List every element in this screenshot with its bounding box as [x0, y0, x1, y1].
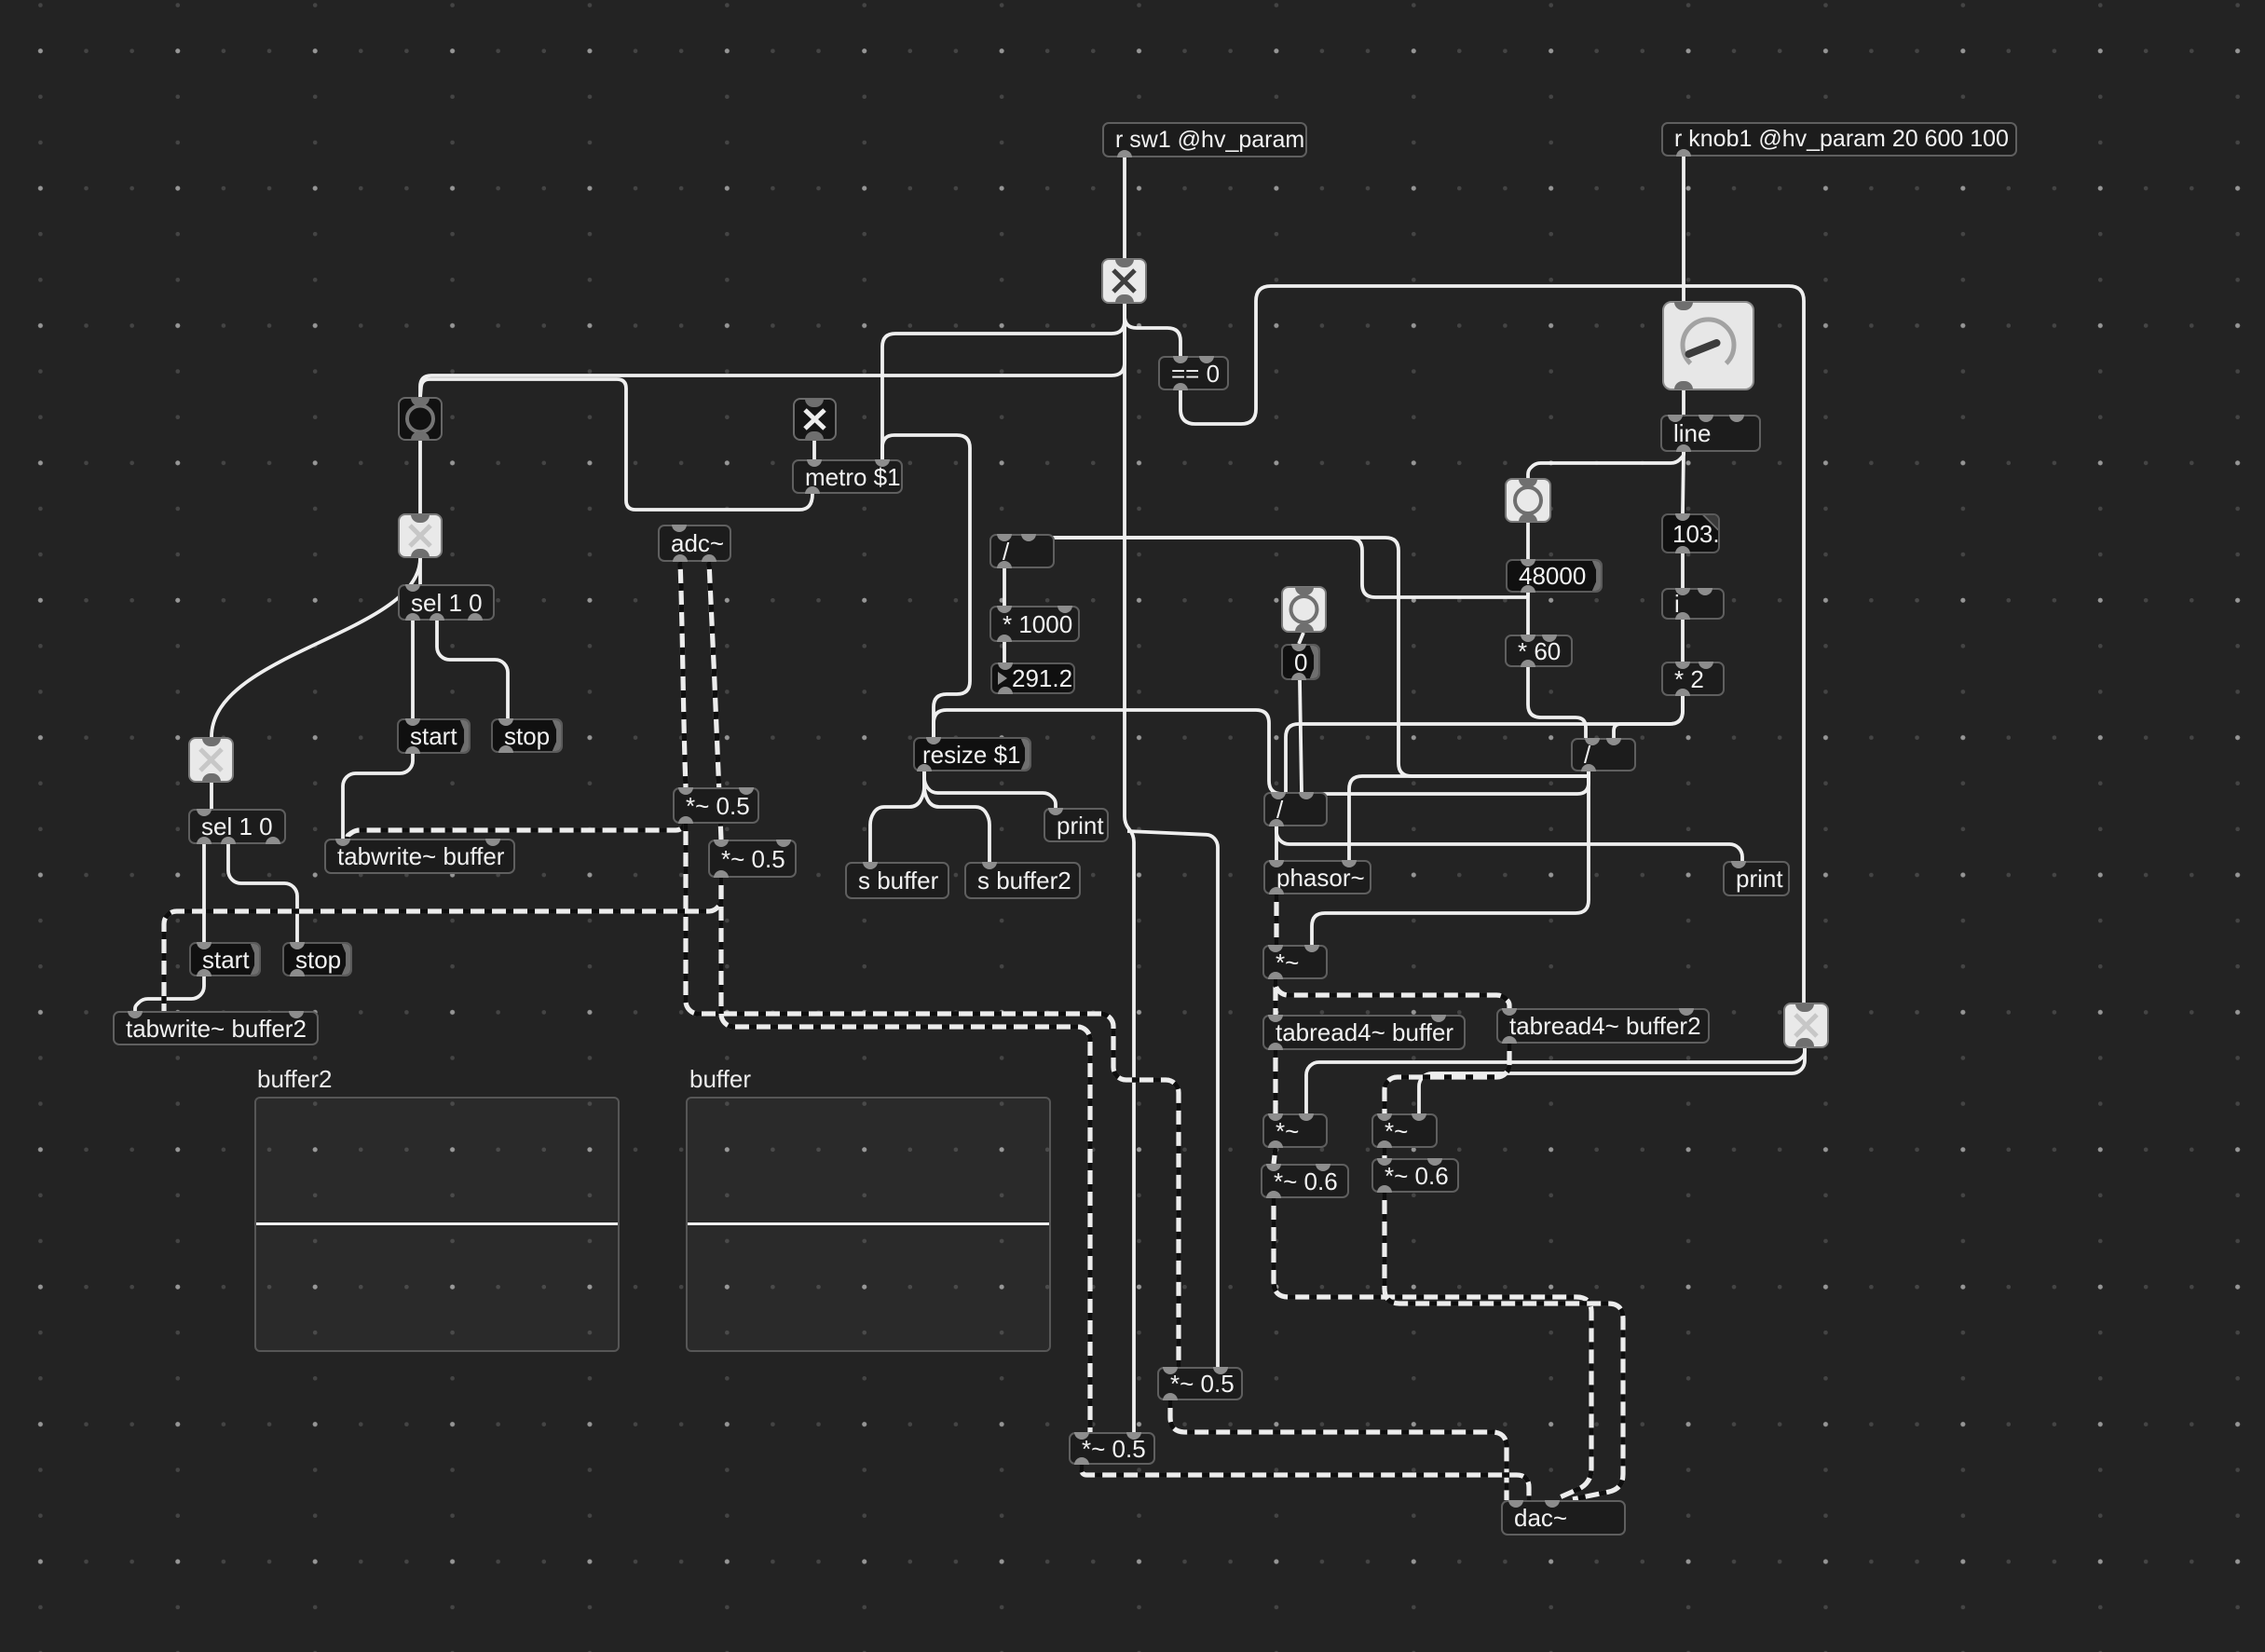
message [0] [1281, 644, 1320, 680]
wire / D3 -> phasor [1275, 826, 1278, 860]
message [stop] M4 [282, 942, 352, 976]
message [resize $1] [913, 737, 1031, 771]
wire line -> bng B2 [1528, 452, 1684, 478]
wire == 0 -> toggle T5 [1180, 286, 1804, 1003]
wire toggle T3 -> metro [812, 441, 816, 459]
message [start] M1 [397, 718, 471, 754]
wire knob -> line [1682, 390, 1685, 415]
array graph buffer [689, 1065, 751, 1094]
signal *~0.5a -> *~0.5 up [686, 824, 1179, 1367]
wire toggle sw -> metro right inlet [882, 304, 1125, 459]
wire sel S2 -> stop M4 [228, 844, 297, 942]
wire start M1 -> tabwrite buffer [343, 753, 413, 839]
object [/] D3 [1263, 792, 1328, 826]
object [*~ 0.5] a [673, 787, 759, 824]
wire bng B3 -> msg 0 [1299, 633, 1303, 644]
object [s buffer2] [964, 862, 1081, 899]
wire sel S2 -> start M3 [202, 844, 206, 942]
wire / D2 -> resize [934, 710, 1589, 794]
object [*~ 0.5] low [1069, 1432, 1155, 1465]
wire toggle sw -> *~0.5 low right inlet [1125, 304, 1134, 1432]
wire / D2 -> *~ X1 right inlet [1312, 771, 1589, 945]
object [phasor~] [1263, 860, 1371, 894]
signal adc~ L -> *~0.5 a [680, 562, 686, 787]
object [tabwrite~ buffer] [324, 839, 515, 874]
signal *~X1 -> tabread4 buffer [1273, 979, 1277, 1015]
wire / D2 -> / D1 right inlet [1030, 534, 1589, 776]
object [== 0] [1158, 356, 1229, 390]
wire / D3 -> print P2 [1276, 826, 1742, 863]
toggle T1 [398, 513, 443, 558]
signal *~X3 -> *~0.6 R [1382, 1148, 1386, 1158]
wire toggle T1 -> toggle T2 [211, 558, 420, 737]
wire nbx 103 -> i [1681, 553, 1685, 588]
object [*~ 0.6] R [1371, 1158, 1459, 1193]
wire / D2 -> phasor right inlet [1349, 771, 1589, 860]
wire toggle sw -> == 0 [1125, 304, 1180, 356]
wire metro right inlet <- resize inlet [882, 435, 970, 737]
toggle T3 [793, 398, 837, 441]
object [*~ 0.5] b [708, 840, 797, 878]
object [* 2] [1661, 662, 1725, 696]
bang B1 [398, 397, 443, 441]
object [s buffer] [845, 862, 949, 899]
wire sel S1 -> start M1 [411, 621, 415, 718]
object [r sw1 @hv_param] [1102, 122, 1307, 157]
wire line -> nbx 103 [1683, 452, 1684, 513]
signal *~X1 -> tabread4 buffer2 [1276, 979, 1509, 1008]
object [r knob1 @hv_param 20 600 100] [1661, 122, 2017, 157]
object [metro $1] [792, 459, 903, 494]
wire sel S1 -> stop M2 [437, 621, 508, 718]
object [sel 1 0] S1 [398, 584, 495, 621]
wire toggle T5 -> *~ X3 right inlet [1419, 1047, 1805, 1113]
object [*~ 0.5] up [1157, 1367, 1243, 1400]
wire toggle T2 -> sel S2 [210, 783, 213, 809]
signal *~0.5b -> *~0.5 low [721, 878, 1090, 1432]
wire / D1 -> * 1000 [1003, 568, 1006, 606]
object [*~ 0.6] L [1261, 1164, 1349, 1198]
message [48000] [1506, 559, 1603, 593]
object [tabread4~ buffer2] [1496, 1008, 1710, 1044]
object [dac~] [1501, 1500, 1626, 1536]
signal phasor -> *~ X1 [1274, 894, 1278, 945]
inlet/outlet nubs [1117, 150, 1132, 157]
object [*~] X2 [1262, 1113, 1328, 1148]
object [*~] X1 [1262, 945, 1328, 979]
object [tabread4~ buffer] [1262, 1015, 1466, 1050]
signal *~0.5 up -> dac L [1170, 1400, 1507, 1500]
signal adc~ R -> *~0.5 b [709, 562, 721, 840]
wire * 60 -> / D2 left inlet [1528, 667, 1586, 738]
object [print] P2 [1723, 861, 1790, 896]
object [* 1000] [989, 606, 1080, 642]
wire resize -> s buffer [870, 771, 924, 862]
wire msg 0 -> / D3 right inlet [1300, 680, 1302, 792]
wire i -> * 2 [1681, 620, 1685, 662]
wire * 1000 -> number 291 [1003, 642, 1006, 662]
object [/] D1 [989, 534, 1055, 568]
wire metro -> bng B1 [420, 379, 812, 510]
wire * 2 -> / D3 left inlet [1286, 696, 1683, 792]
wire resize -> s buffer2 [924, 771, 989, 862]
object [i] [1661, 588, 1725, 620]
object [print] P1 [1044, 808, 1109, 842]
message [stop] M2 [491, 718, 563, 753]
wire toggle T1 -> sel S1 [418, 558, 422, 584]
object [*~] X3 [1371, 1113, 1438, 1148]
knob knob1 [1662, 301, 1754, 390]
bang B3 [1281, 586, 1327, 633]
wire bng B1 -> toggle T1 [418, 441, 422, 513]
wire r knob1 -> knob [1682, 157, 1685, 301]
message [start] M3 [189, 942, 261, 976]
object [/] D2 [1571, 738, 1636, 771]
number [103.] [1661, 513, 1720, 553]
wire toggle T5 -> *~ X2 right inlet [1306, 1047, 1805, 1113]
signal tabread4 buffer2 -> *~ X3 [1385, 1044, 1509, 1113]
signal *~0.5b -> tabwrite buffer2 [164, 878, 721, 1011]
array graph buffer2 [257, 1065, 332, 1094]
object [adc~] [658, 525, 731, 562]
signal tabread4 buffer -> *~ X2 [1273, 1050, 1277, 1113]
signal *~0.6L -> dac [1274, 1198, 1591, 1497]
wire r sw1 -> toggle sw [1123, 157, 1126, 258]
number [291.26] [990, 662, 1075, 694]
toggle T5 [1783, 1003, 1829, 1048]
object [* 60] [1505, 635, 1573, 667]
signal *~X2 -> *~0.6 L [1274, 1148, 1276, 1164]
wire 48000 -> * 60 [1526, 593, 1530, 635]
toggle T2 [188, 737, 234, 783]
wire start M3 -> tabwrite buffer2 [135, 976, 204, 1011]
wire 48000 -> / D1 right inlet [1030, 534, 1528, 597]
signal *~0.6R -> dac [1385, 1193, 1623, 1499]
object [sel 1 0] S2 [188, 809, 286, 844]
wire bng B2 -> 48000 [1526, 523, 1530, 559]
object [line] [1660, 415, 1761, 452]
toggle sw1 [1101, 258, 1147, 304]
bang B2 [1505, 478, 1551, 523]
wire toggle sw branch -> *~0.5 up right inlet [1127, 831, 1218, 1367]
object [tabwrite~ buffer2] [113, 1011, 319, 1045]
signal *~0.5 low -> dac L [1082, 1465, 1529, 1500]
wire toggle sw -> bng B1 [420, 304, 1125, 398]
signal *~0.5a -> tabwrite buffer [348, 824, 686, 839]
wire resize -> print P1 [924, 771, 1056, 808]
wire * 2 -> / D2 right inlet [1614, 696, 1683, 738]
